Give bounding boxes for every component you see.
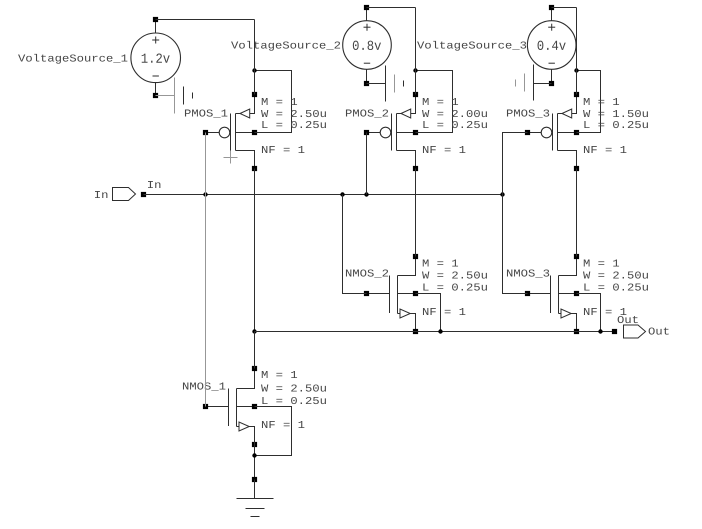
value labels NMOS_2: [422, 260, 487, 315]
pin PMOS_2 source: [413, 92, 418, 97]
value labels NMOS_3: [583, 260, 648, 315]
ground for VoltageSource_3: [516, 65, 552, 101]
wire VoltageSource_1 top to PMOS_1 source rail: [156, 19, 255, 21]
voltage source VoltageSource_2 (0.8v): [343, 21, 392, 70]
wire NMOS_2 bulk tie to source: [416, 294, 441, 332]
pin VoltageSource_3 MINUS terminal: [549, 81, 554, 86]
voltage source VoltageSource_1 (1.2v): [131, 33, 181, 83]
wire VoltageSource_3 positive stub: [551, 8, 553, 21]
pin Out port: [612, 329, 617, 334]
port Out: [624, 325, 646, 338]
pin In port: [141, 192, 146, 197]
wire VoltageSource_3 negative stub: [551, 69, 553, 83]
pin PMOS_3 drain: [574, 166, 579, 171]
pin PMOS_3 source: [574, 92, 579, 97]
pin NMOS_1 bulk: [252, 404, 257, 409]
wire In up to PMOS_2 gate: [366, 133, 368, 195]
node PMOS_1 source junction: [252, 68, 256, 72]
wire VoltageSource_3 top to PMOS_3 source rail: [552, 7, 577, 9]
node In / PMOS_2 gate junction: [364, 192, 368, 196]
pin NMOS_3 source: [574, 329, 579, 334]
label PMOS_1: [185, 109, 227, 117]
transistor NMOS_2 (NMOS): [367, 257, 416, 332]
ground symbol at bottom: [237, 480, 274, 517]
pin VoltageSource_2 PLUS terminal: [364, 5, 369, 10]
label Out port name: [649, 327, 669, 334]
pin PMOS_2 drain: [413, 166, 418, 171]
wire In bus: [144, 194, 503, 196]
label PMOS_3: [507, 109, 549, 117]
wire supply rail into PMOS_2: [415, 71, 417, 95]
wire output node down to NMOS_1 drain: [254, 332, 256, 369]
node NMOS_1 bulk tie junction: [252, 453, 256, 457]
wire Out bus: [255, 331, 615, 333]
pin NMOS_2 gate: [364, 291, 369, 296]
wire PMOS_2 bulk tie to source rail: [416, 71, 453, 133]
pin PMOS_1 gate: [203, 130, 208, 135]
wire VDD1 rail down to PMOS_1: [254, 20, 256, 71]
label NMOS_3: [507, 269, 549, 277]
pin NMOS_3 gate: [525, 291, 530, 296]
wire PMOS_3 bulk tie to source rail: [577, 71, 601, 133]
wire NMOS_1 bulk tie to source: [255, 407, 292, 456]
node In / NMOS_2 gate junction: [340, 192, 344, 196]
wire NMOS_1 source down to ground: [254, 427, 256, 480]
wire PMOS_2 drain to NMOS_2 drain: [415, 169, 417, 257]
wire In up to PMOS_3 gate: [503, 133, 528, 195]
pin PMOS_1 source: [252, 92, 257, 97]
pin PMOS_1 bulk: [252, 130, 257, 135]
transistor PMOS_2 (PMOS): [367, 95, 416, 169]
label PMOS_2: [346, 109, 388, 117]
pin NMOS_2 source: [413, 329, 418, 334]
value labels PMOS_2: [422, 98, 487, 153]
ground for VoltageSource_2: [367, 66, 404, 102]
label NMOS_2: [346, 269, 388, 277]
wire In down to NMOS_3 gate: [503, 195, 528, 294]
label NMOS_1: [183, 382, 225, 390]
label VoltageSource_3: [417, 41, 526, 51]
label VoltageSource_2: [231, 41, 340, 51]
pin NMOS_3 bulk: [574, 291, 579, 296]
net label Out: [618, 316, 638, 323]
label In port name: [95, 191, 107, 198]
pin VoltageSource_1 PLUS terminal: [153, 17, 158, 22]
transistor NMOS_1 (NMOS): [206, 369, 255, 445]
wire VDD2 rail down to PMOS_2: [415, 8, 417, 71]
label VoltageSource_1: [18, 54, 127, 64]
node NMOS_3 bulk tie junction on Out: [598, 329, 602, 333]
transistor NMOS_3 (NMOS): [528, 257, 577, 332]
wire In down to NMOS_2 gate: [343, 195, 367, 294]
wire PMOS_1 drain down to output node: [254, 169, 256, 332]
wire VoltageSource_1 positive stub: [155, 20, 157, 34]
value labels PMOS_1: [261, 98, 326, 153]
pin ground: [252, 477, 257, 482]
wire VDD3 rail down to PMOS_3: [576, 8, 578, 71]
pin NMOS_1 source: [252, 442, 257, 447]
pin VoltageSource_1 MINUS terminal: [153, 93, 158, 98]
value labels PMOS_3: [583, 98, 648, 153]
transistor PMOS_3 (PMOS): [528, 95, 577, 169]
pin NMOS_2 bulk: [413, 291, 418, 296]
wire PMOS_1 bulk tie to source rail: [255, 71, 292, 133]
net label In: [148, 181, 160, 188]
ground for VoltageSource_1: [156, 78, 193, 114]
pin NMOS_2 drain: [413, 254, 418, 259]
pin NMOS_1 drain: [252, 366, 257, 371]
node output junction on stage1 rail: [252, 329, 256, 333]
node In / stage3 gate junction: [500, 192, 504, 196]
node PMOS_3 source junction: [574, 68, 578, 72]
pin PMOS_3 bulk: [574, 130, 579, 135]
wire PMOS_3 drain to NMOS_3 drain: [576, 169, 578, 257]
value labels NMOS_1: [261, 371, 326, 428]
wire VoltageSource_1 negative stub: [155, 83, 157, 96]
transistor PMOS_1 (PMOS): [206, 95, 255, 169]
wire supply rail into PMOS_3: [576, 71, 578, 95]
node NMOS_2 bulk tie junction on Out: [438, 329, 442, 333]
wire VoltageSource_2 positive stub: [366, 8, 368, 21]
pin PMOS_1 drain: [252, 166, 257, 171]
wire VoltageSource_2 negative stub: [366, 69, 368, 83]
node PMOS_2 source junction: [413, 68, 417, 72]
pin PMOS_2 bulk: [413, 130, 418, 135]
wire gate net PMOS_1 to NMOS_1: [205, 133, 207, 407]
node In / stage1 gate junction: [203, 192, 207, 196]
port In: [113, 188, 136, 201]
wire VoltageSource_2 top to PMOS_2 source rail: [367, 7, 416, 9]
pin PMOS_3 gate: [525, 130, 530, 135]
pin NMOS_3 drain: [574, 254, 579, 259]
pin VoltageSource_2 MINUS terminal: [364, 81, 369, 86]
voltage source VoltageSource_3 (0.4v): [527, 21, 576, 70]
pin NMOS_1 gate: [203, 404, 208, 409]
wire NMOS_3 bulk tie to source: [577, 294, 601, 332]
pin PMOS_2 gate: [364, 130, 369, 135]
wire supply rail into PMOS_1: [254, 71, 256, 95]
pin VoltageSource_3 PLUS terminal: [549, 5, 554, 10]
gray tick below PMOS_1 gate: [224, 151, 238, 164]
